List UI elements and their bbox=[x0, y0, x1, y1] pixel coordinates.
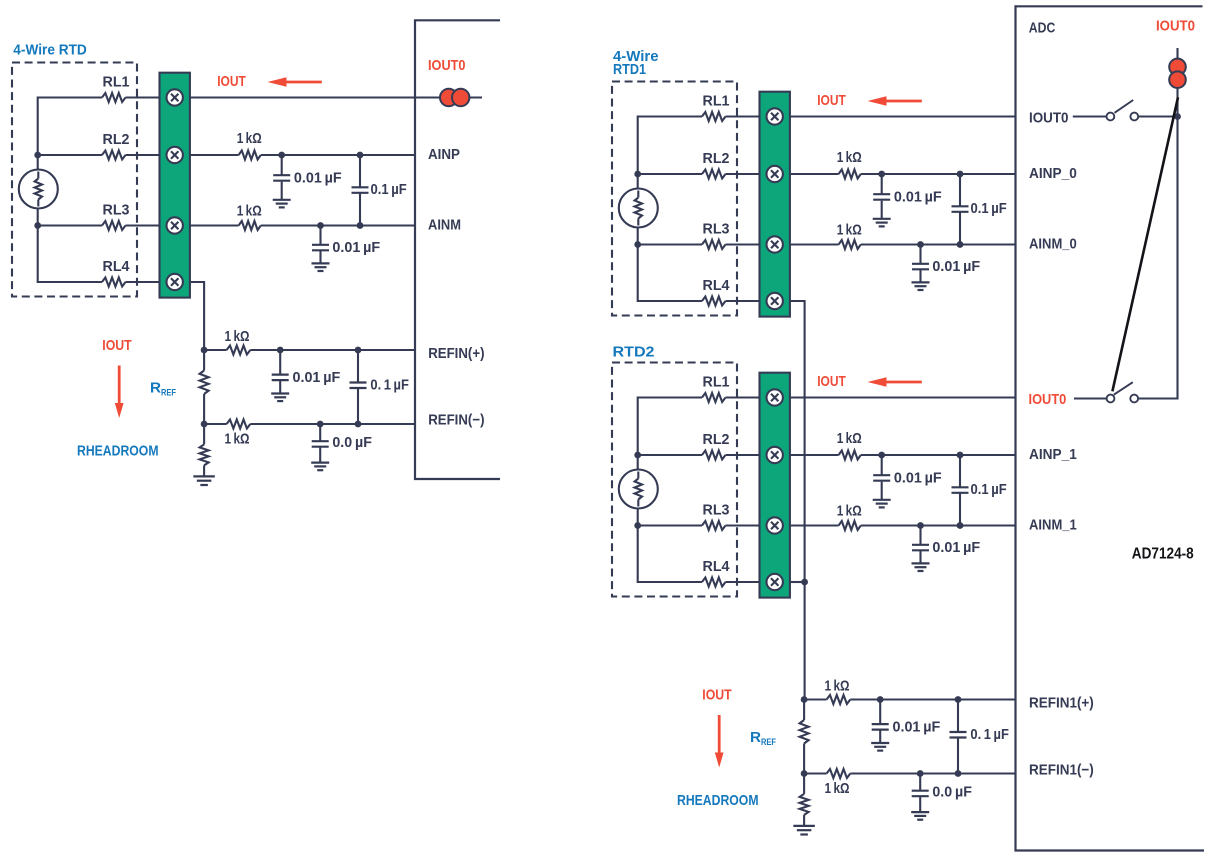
label 0.1 µF RTD2 diff bbox=[971, 482, 1007, 498]
svg-text:0.1 µF: 0.1 µF bbox=[971, 482, 1007, 498]
junction RTD1 AINM filter node bbox=[917, 241, 924, 248]
terminal X1 (RTD2) bbox=[767, 389, 783, 405]
resistor 1 kΩ RTD2 AINM bbox=[839, 521, 861, 530]
label IOUT0 (top right) bbox=[1156, 17, 1195, 34]
terminal X3 (RTD2) bbox=[767, 517, 783, 533]
svg-text:0.1 µF: 0.1 µF bbox=[371, 182, 407, 198]
label RREF (right ref) bbox=[750, 729, 776, 748]
switch S2 lever bbox=[1114, 382, 1133, 395]
label RL1 (left RTD) bbox=[103, 74, 130, 90]
label 1 kΩ left ref bottom bbox=[225, 432, 250, 448]
resistor RL3 (RTD2) bbox=[702, 521, 726, 530]
svg-text:IOUT: IOUT bbox=[817, 92, 846, 109]
junction left AINP diff node bbox=[357, 152, 364, 159]
junction left ref 0.1 bottom node bbox=[355, 421, 362, 428]
junction right ref rail REFIN(+) bbox=[801, 696, 808, 703]
svg-text:0.01 µF: 0.01 µF bbox=[932, 259, 980, 275]
terminal X4 (left RTD) bbox=[167, 274, 183, 290]
svg-text:1 kΩ: 1 kΩ bbox=[837, 431, 862, 447]
label AINP_1 pin bbox=[1029, 446, 1077, 463]
resistor 1 kΩ left ref bottom bbox=[227, 420, 251, 429]
label AINP pin bbox=[428, 146, 460, 163]
label 0.01 µF left AINM bbox=[332, 240, 380, 256]
junction IOUT0 rail / switch 1 bbox=[1174, 113, 1181, 120]
label RHEADROOM (right ref) bbox=[677, 792, 759, 809]
wire RL2 to terminal (RTD1) bbox=[726, 173, 761, 175]
junction right ref 0.0 node bbox=[917, 770, 924, 777]
capacitor 0.01 µF left ref bbox=[271, 350, 289, 401]
svg-text:1 kΩ: 1 kΩ bbox=[837, 223, 862, 239]
svg-text:AINM: AINM bbox=[428, 216, 461, 233]
label 0.01 µF RTD2 AINP bbox=[894, 470, 942, 486]
wire RTD1 RL2 stub bbox=[638, 173, 702, 175]
svg-text:RL2: RL2 bbox=[703, 432, 730, 448]
resistor RL2 (left RTD) bbox=[102, 151, 126, 160]
svg-text:IOUT0: IOUT0 bbox=[1156, 17, 1195, 34]
ADC box AD7124-8 bbox=[1016, 6, 1205, 850]
capacitor 0.0 µF left ref bbox=[311, 424, 329, 470]
label IOUT (RTD2) bbox=[817, 373, 846, 390]
switch S1 throw bbox=[1130, 113, 1138, 121]
terminal X2 (left RTD) bbox=[167, 147, 183, 163]
wire RTD2 RL1 to IOUT0 pin bbox=[790, 396, 1016, 398]
junction left ref 0.1 top node bbox=[355, 347, 362, 354]
wire RTD1 RL1 to IOUT0 pin bbox=[790, 115, 1016, 117]
svg-text:RL3: RL3 bbox=[703, 221, 730, 237]
terminal strip (RTD2) bbox=[760, 373, 790, 598]
svg-text:0. 1 µF: 0. 1 µF bbox=[370, 378, 409, 394]
svg-text:R: R bbox=[150, 380, 161, 397]
wire RTD2 RL2 stub bbox=[638, 454, 702, 456]
wire IOUT0 rail bbox=[1138, 48, 1177, 399]
resistor RL1 (RTD1) bbox=[702, 112, 726, 121]
svg-text:RHEADROOM: RHEADROOM bbox=[677, 792, 759, 809]
RTD sensor element RTD2 bbox=[619, 470, 658, 509]
wire right ref REFIN(+) row bbox=[804, 698, 1015, 700]
svg-text:IOUT: IOUT bbox=[702, 687, 731, 704]
label RL3 (RTD2) bbox=[703, 502, 730, 518]
wire RTD2 RL4 to reference rail bbox=[790, 581, 805, 583]
RTD sensor element left RTD bbox=[19, 170, 58, 209]
dashed enclosure RTD1 bbox=[612, 82, 737, 316]
svg-text:REFIN1(−): REFIN1(−) bbox=[1029, 761, 1094, 778]
wire left ref REFIN(+) row bbox=[204, 349, 415, 351]
label 0.01 µF RTD1 AINM bbox=[932, 259, 980, 275]
junction RTD2 AINP filter node bbox=[878, 452, 885, 459]
resistor 1 kΩ left AINP bbox=[239, 151, 261, 160]
wire RL4 to terminal (left RTD) bbox=[126, 281, 161, 283]
dashed enclosure RTD2 bbox=[612, 363, 737, 597]
terminal X1 (RTD1) bbox=[767, 108, 783, 124]
wire RTD1 AINM row bbox=[790, 243, 1016, 245]
wire RL4 to terminal (RTD1) bbox=[726, 300, 761, 302]
wire left RTD RL2 stub bbox=[38, 154, 102, 156]
label IOUT0 pin (left box) bbox=[428, 57, 466, 74]
label 0.1 µF left ref bbox=[370, 378, 409, 394]
switch S1 pole bbox=[1107, 113, 1115, 121]
svg-text:RL4: RL4 bbox=[103, 259, 130, 275]
label 1 kΩ right ref top bbox=[825, 679, 850, 695]
wire RL1 to terminal (RTD1) bbox=[726, 115, 761, 117]
label REFIN(+) pin bbox=[428, 345, 484, 362]
label RTD2 bbox=[613, 343, 655, 360]
label 4-Wire RTD (left) bbox=[13, 41, 87, 58]
wire switch 1 to rail bbox=[1138, 115, 1177, 117]
label 1 kΩ RTD1 AINP bbox=[837, 150, 862, 166]
label 0.01 µF left ref bbox=[293, 370, 341, 386]
mux selector line bbox=[1112, 97, 1178, 391]
capacitor 0.01 µF right ref bbox=[871, 700, 889, 751]
svg-text:IOUT: IOUT bbox=[102, 337, 131, 354]
svg-text:AINP_0: AINP_0 bbox=[1029, 165, 1077, 182]
label AINM_1 pin bbox=[1029, 517, 1077, 534]
wire RTD2 sensor bus bbox=[638, 398, 702, 583]
resistor RL3 (left RTD) bbox=[102, 221, 126, 230]
svg-text:0.01 µF: 0.01 µF bbox=[893, 719, 941, 735]
label 0.01 µF left AINP bbox=[294, 170, 342, 186]
wire RTD2 AINM row bbox=[790, 524, 1016, 526]
svg-text:REFIN(−): REFIN(−) bbox=[428, 412, 484, 429]
svg-text:1 kΩ: 1 kΩ bbox=[237, 131, 262, 147]
label REFIN1(+) pin bbox=[1029, 695, 1094, 712]
svg-text:ADC: ADC bbox=[1029, 20, 1056, 37]
label IOUT0 pin (switch 1) bbox=[1029, 109, 1069, 126]
svg-text:RL4: RL4 bbox=[703, 559, 730, 575]
label RL1 (RTD1) bbox=[703, 93, 730, 109]
RTD sensor element RTD1 bbox=[619, 189, 658, 228]
wire RL2 to terminal (left RTD) bbox=[126, 154, 161, 156]
junction RTD2 top node bbox=[634, 452, 641, 459]
wire RTD1 sensor bus bbox=[638, 117, 702, 302]
label RL2 (RTD2) bbox=[703, 432, 730, 448]
label 1 kΩ RTD2 AINP bbox=[837, 431, 862, 447]
svg-text:RL4: RL4 bbox=[703, 278, 730, 294]
label 0.01 µF RTD1 AINP bbox=[894, 189, 942, 205]
junction left ref 0.01 node bbox=[277, 347, 284, 354]
wire RTD2 RL3 stub bbox=[638, 524, 702, 526]
junction right ref 0.1 bottom node bbox=[955, 770, 962, 777]
label 0.01 µF right ref bbox=[893, 719, 941, 735]
svg-text:0. 1 µF: 0. 1 µF bbox=[970, 727, 1009, 743]
junction RTD1 AINM diff node bbox=[957, 241, 964, 248]
label REFIN1(-) pin bbox=[1029, 761, 1094, 778]
svg-text:0.0 µF: 0.0 µF bbox=[932, 785, 972, 801]
svg-text:RTD1: RTD1 bbox=[613, 61, 646, 78]
label RTD1 bbox=[613, 61, 646, 78]
capacitor 0.1 µF right ref bbox=[950, 700, 967, 774]
svg-text:AINP_1: AINP_1 bbox=[1029, 446, 1077, 463]
svg-text:RL2: RL2 bbox=[103, 132, 130, 148]
wire RL1 to terminal (RTD2) bbox=[726, 396, 761, 398]
label 1 kΩ left ref top bbox=[225, 329, 250, 345]
label AINM pin bbox=[428, 216, 461, 233]
junction RTD2 RL4 rail bbox=[801, 579, 808, 586]
label RL4 (RTD1) bbox=[703, 278, 730, 294]
label 1 kΩ left AINP bbox=[237, 131, 262, 147]
junction RTD2 bottom node bbox=[634, 522, 641, 529]
svg-text:AINP: AINP bbox=[428, 146, 460, 163]
wire RL1 to terminal (left RTD) bbox=[126, 96, 161, 98]
svg-text:AD7124-8: AD7124-8 bbox=[1132, 545, 1194, 562]
junction left ref rail REFIN(+) bbox=[201, 347, 208, 354]
label AINP_0 pin bbox=[1029, 165, 1077, 182]
junction RTD1 AINP diff node bbox=[957, 171, 964, 178]
capacitor 0.01 µF left AINM bbox=[312, 226, 330, 272]
terminal X2 (RTD1) bbox=[767, 166, 783, 182]
wire left RTD RL3 stub bbox=[38, 224, 102, 226]
wire left RTD sensor bus bbox=[38, 98, 102, 283]
svg-text:1 kΩ: 1 kΩ bbox=[837, 504, 862, 520]
junction RTD2 AINM filter node bbox=[917, 522, 924, 529]
terminal strip (left RTD) bbox=[160, 73, 190, 298]
svg-text:0.01 µF: 0.01 µF bbox=[932, 540, 980, 556]
junction RTD1 bottom node bbox=[634, 241, 641, 248]
capacitor 0.1 µF RTD1 diff bbox=[952, 174, 969, 245]
arrow IOUT left (RTD1) bbox=[868, 96, 922, 105]
label 0.1 µF RTD1 diff bbox=[971, 201, 1007, 217]
wire RL4 to reference rail (left) bbox=[190, 282, 204, 350]
svg-text:0.01 µF: 0.01 µF bbox=[293, 370, 341, 386]
wire IOUT0 pin to switch 2 bbox=[1074, 397, 1107, 399]
junction left RTD bottom node bbox=[34, 222, 41, 229]
node IOUT0 source circles bbox=[1169, 59, 1186, 88]
resistor RREF (left ref) bbox=[200, 350, 209, 424]
svg-text:AINM_0: AINM_0 bbox=[1029, 236, 1077, 253]
label 1 kΩ RTD2 AINM bbox=[837, 504, 862, 520]
wire RTD1 RL3 stub bbox=[638, 243, 702, 245]
junction left AINM diff node bbox=[357, 222, 364, 229]
junction right ref 0.01 node bbox=[877, 696, 884, 703]
capacitor 0.1 µF RTD2 diff bbox=[952, 455, 969, 526]
svg-text:REF: REF bbox=[161, 388, 176, 399]
label 1 kΩ RTD1 AINM bbox=[837, 223, 862, 239]
wire RTD2 AINP row bbox=[790, 454, 1016, 456]
label ADC bbox=[1029, 20, 1056, 37]
svg-text:IOUT0: IOUT0 bbox=[428, 57, 466, 74]
resistor 1 kΩ left ref top bbox=[227, 346, 251, 355]
svg-text:RL1: RL1 bbox=[103, 74, 130, 90]
resistor 1 kΩ right ref bottom bbox=[827, 769, 851, 778]
resistor RL2 (RTD1) bbox=[702, 170, 726, 179]
resistor RHEADROOM (left ref) bbox=[193, 424, 215, 485]
svg-text:REF: REF bbox=[761, 737, 776, 748]
switch S1 lever bbox=[1115, 100, 1134, 113]
svg-text:RL3: RL3 bbox=[703, 502, 730, 518]
label IOUT (right ref) bbox=[702, 687, 731, 704]
switch S2 pole bbox=[1107, 395, 1115, 403]
label 0.0 µF right ref bbox=[932, 785, 972, 801]
label RL4 (left RTD) bbox=[103, 259, 130, 275]
resistor 1 kΩ RTD2 AINP bbox=[839, 451, 861, 460]
svg-text:1 kΩ: 1 kΩ bbox=[225, 432, 250, 448]
wire RL3 to terminal (RTD2) bbox=[726, 524, 761, 526]
resistor 1 kΩ RTD1 AINM bbox=[839, 240, 861, 249]
resistor RREF (right ref) bbox=[800, 700, 809, 774]
wire RL3 to terminal (left RTD) bbox=[126, 224, 161, 226]
junction left ref 0.0 node bbox=[317, 421, 324, 428]
capacitor 0.01 µF RTD2 AINP bbox=[873, 455, 891, 507]
wire left ref REFIN(-) row bbox=[204, 423, 415, 425]
svg-text:0.01 µF: 0.01 µF bbox=[894, 189, 942, 205]
label RL3 (RTD1) bbox=[703, 221, 730, 237]
wire left AINM row bbox=[190, 224, 415, 226]
terminal X2 (RTD2) bbox=[767, 447, 783, 463]
terminal strip (RTD1) bbox=[760, 92, 790, 317]
junction right ref rail REFIN(-) bbox=[801, 770, 808, 777]
svg-text:IOUT0: IOUT0 bbox=[1029, 109, 1069, 126]
svg-text:RL2: RL2 bbox=[703, 151, 730, 167]
wire left AINP row bbox=[190, 154, 415, 156]
terminal X4 (RTD2) bbox=[767, 574, 783, 590]
label REFIN(-) pin bbox=[428, 412, 484, 429]
label RL2 (RTD1) bbox=[703, 151, 730, 167]
svg-text:RTD2: RTD2 bbox=[613, 343, 655, 360]
svg-text:1 kΩ: 1 kΩ bbox=[225, 329, 250, 345]
svg-text:RL1: RL1 bbox=[703, 93, 730, 109]
resistor RL4 (RTD1) bbox=[702, 297, 726, 306]
junction right ref 0.1 top node bbox=[955, 696, 962, 703]
label AINM_0 pin bbox=[1029, 236, 1077, 253]
label RL3 (left RTD) bbox=[103, 202, 130, 218]
label IOUT0 pin (switch 2) bbox=[1029, 391, 1067, 408]
label RREF (left ref) bbox=[150, 380, 176, 399]
svg-text:REFIN1(+): REFIN1(+) bbox=[1029, 695, 1094, 712]
resistor 1 kΩ right ref top bbox=[827, 695, 851, 704]
label 0.1 µF left diff bbox=[371, 182, 407, 198]
terminal X4 (RTD1) bbox=[767, 293, 783, 309]
svg-text:RL3: RL3 bbox=[103, 202, 130, 218]
label AD7124-8 bbox=[1132, 545, 1194, 562]
junction RTD2 AINM diff node bbox=[957, 522, 964, 529]
arrow IOUT down (right ref) bbox=[715, 715, 724, 768]
resistor 1 kΩ left AINM bbox=[239, 221, 261, 230]
junction left AINP filter node bbox=[278, 152, 285, 159]
label 1 kΩ left AINM bbox=[237, 204, 262, 220]
svg-text:1 kΩ: 1 kΩ bbox=[825, 679, 850, 695]
wire IOUT0 pin to switch 1 bbox=[1073, 115, 1107, 117]
arrow IOUT left (RTD2) bbox=[868, 377, 922, 386]
label IOUT (left) bbox=[217, 73, 246, 90]
svg-text:4-Wire RTD: 4-Wire RTD bbox=[13, 41, 87, 58]
capacitor 0.1 µF left diff bbox=[352, 155, 369, 226]
label IOUT (left ref) bbox=[102, 337, 131, 354]
resistor RL2 (RTD2) bbox=[702, 451, 726, 460]
capacitor 0.01 µF RTD1 AINP bbox=[873, 174, 891, 226]
svg-text:RHEADROOM: RHEADROOM bbox=[77, 443, 159, 460]
label 0.01 µF RTD2 AINM bbox=[932, 540, 980, 556]
junction RTD1 AINP filter node bbox=[878, 171, 885, 178]
label 4-Wire (RTD1) bbox=[613, 48, 659, 65]
resistor RL3 (RTD1) bbox=[702, 240, 726, 249]
junction RTD1 top node bbox=[634, 171, 641, 178]
resistor RL1 (left RTD) bbox=[102, 93, 126, 102]
wire RL4 to terminal (RTD2) bbox=[726, 581, 761, 583]
svg-text:1 kΩ: 1 kΩ bbox=[837, 150, 862, 166]
svg-text:1 kΩ: 1 kΩ bbox=[825, 781, 850, 797]
label RL4 (RTD2) bbox=[703, 559, 730, 575]
svg-text:1 kΩ: 1 kΩ bbox=[237, 204, 262, 220]
junction left AINM filter node bbox=[317, 222, 324, 229]
junction left RTD top node bbox=[34, 152, 41, 159]
dashed enclosure left RTD bbox=[12, 63, 137, 297]
wire IOUT row (left) bbox=[190, 96, 482, 98]
wire RTD1 RL4 to reference rail bbox=[790, 301, 805, 700]
label 1 kΩ right ref bottom bbox=[825, 781, 850, 797]
svg-text:IOUT: IOUT bbox=[217, 73, 246, 90]
label IOUT (RTD1) bbox=[817, 92, 846, 109]
arrow IOUT left (left) bbox=[268, 77, 322, 86]
resistor RL4 (RTD2) bbox=[702, 578, 726, 587]
wire RL3 to terminal (RTD1) bbox=[726, 243, 761, 245]
label RL1 (RTD2) bbox=[703, 374, 730, 390]
wire RL2 to terminal (RTD2) bbox=[726, 454, 761, 456]
wire right ref REFIN(-) row bbox=[804, 772, 1015, 774]
label 0.0 µF left ref bbox=[332, 435, 372, 451]
capacitor 0.01 µF RTD2 AINM bbox=[912, 526, 930, 572]
svg-text:0.01 µF: 0.01 µF bbox=[894, 470, 942, 486]
capacitor 0.1 µF left ref bbox=[350, 350, 367, 424]
resistor 1 kΩ RTD1 AINP bbox=[839, 170, 861, 179]
svg-text:0.0 µF: 0.0 µF bbox=[332, 435, 372, 451]
junction RTD2 AINP diff node bbox=[957, 452, 964, 459]
junction left ref rail REFIN(-) bbox=[201, 421, 208, 428]
resistor RHEADROOM (right ref) bbox=[793, 774, 815, 835]
label 0.1 µF right ref bbox=[970, 727, 1009, 743]
capacitor 0.01 µF RTD1 AINM bbox=[912, 245, 930, 291]
capacitor 0.01 µF left AINP bbox=[273, 155, 291, 207]
label RHEADROOM (left ref) bbox=[77, 443, 159, 460]
resistor RL4 (left RTD) bbox=[102, 278, 126, 287]
svg-text:AINM_1: AINM_1 bbox=[1029, 517, 1077, 534]
svg-text:R: R bbox=[750, 729, 761, 746]
terminal X3 (left RTD) bbox=[167, 217, 183, 233]
arrow IOUT down (left ref) bbox=[115, 366, 124, 419]
wire RTD1 AINP row bbox=[790, 173, 1016, 175]
terminal X3 (RTD1) bbox=[767, 236, 783, 252]
svg-text:0.01 µF: 0.01 µF bbox=[294, 170, 342, 186]
svg-text:0.01 µF: 0.01 µF bbox=[332, 240, 380, 256]
svg-text:IOUT: IOUT bbox=[817, 373, 846, 390]
svg-text:0.1 µF: 0.1 µF bbox=[971, 201, 1007, 217]
svg-text:REFIN(+): REFIN(+) bbox=[428, 345, 484, 362]
svg-text:IOUT0: IOUT0 bbox=[1029, 391, 1067, 408]
svg-text:RL1: RL1 bbox=[703, 374, 730, 390]
switch S2 throw bbox=[1130, 395, 1138, 403]
resistor RL1 (RTD2) bbox=[702, 393, 726, 402]
node IOUT0 link circles (left) bbox=[440, 89, 469, 106]
label RL2 (left RTD) bbox=[103, 132, 130, 148]
ADC box (left) bbox=[415, 20, 500, 479]
capacitor 0.0 µF right ref bbox=[911, 774, 929, 820]
terminal X1 (left RTD) bbox=[167, 89, 183, 105]
